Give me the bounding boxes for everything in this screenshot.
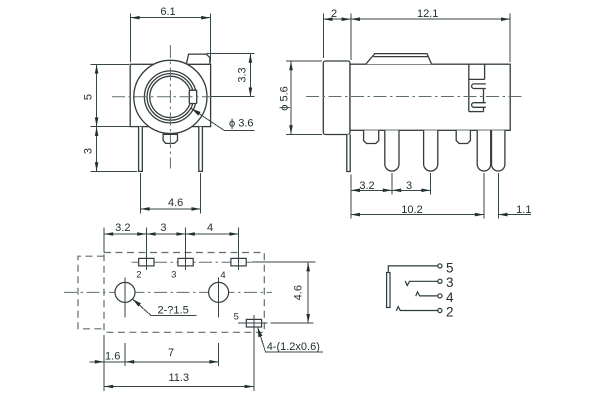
front view top tab	[186, 54, 210, 64]
svg-text:ϕ 3.6: ϕ 3.6	[229, 117, 254, 129]
label 2-1.5 arrow	[133, 299, 142, 307]
bottom view horizontal centerline	[64, 291, 272, 293]
bottom view top extension lines	[103, 228, 105, 253]
svg-text:12.1: 12.1	[417, 8, 438, 20]
dim 10.2 arrows	[351, 213, 360, 217]
front view right leg	[199, 127, 203, 172]
schematic terminal 4	[438, 294, 442, 298]
svg-text:3: 3	[171, 269, 176, 280]
schematic wire pin 2	[396, 307, 438, 311]
dim 7 arrows	[125, 360, 134, 364]
dim 6.1 extension lines	[129, 14, 131, 63]
pad 5 horizontal line	[238, 322, 267, 324]
hole 2 centerline	[218, 278, 220, 318]
side view switch slot lower tail	[483, 107, 485, 111]
svg-text:11.3: 11.3	[169, 372, 190, 384]
dim 4 bottom arrows	[186, 232, 195, 236]
bottom view pad 5	[246, 319, 261, 327]
dim 1.6 arrow	[95, 360, 104, 364]
svg-text:4.6: 4.6	[293, 285, 305, 300]
bottom view pad 3	[178, 258, 193, 266]
svg-text:1.1: 1.1	[516, 204, 531, 216]
svg-text:3: 3	[406, 180, 412, 192]
front view bottom bump	[163, 134, 177, 143]
bottom view body dashed outline	[104, 253, 264, 333]
svg-text:5: 5	[234, 311, 239, 322]
dim phi5.6 line	[290, 61, 292, 134]
dim phi5.6 arrows	[289, 61, 293, 70]
dim 4.6 arrows	[141, 207, 150, 211]
bottom view hole 2	[209, 282, 229, 302]
side view barrel	[323, 61, 350, 135]
side view switch slot lower	[472, 103, 486, 108]
svg-text:6.1: 6.1	[160, 6, 175, 18]
schematic terminal 3	[438, 279, 442, 283]
dim 1.6/7 line	[90, 361, 219, 363]
dim 10.2 line	[351, 214, 484, 216]
svg-text:5: 5	[446, 260, 454, 275]
dim 3 bottom arrows	[147, 232, 156, 236]
bottom dims extension lines	[103, 335, 105, 391]
dim 3 side arrows	[392, 189, 401, 193]
svg-text:3: 3	[83, 148, 95, 154]
centerlines	[64, 45, 524, 292]
arrowheads	[95, 16, 510, 388]
svg-text:5: 5	[83, 94, 95, 100]
phi3.6 leader	[191, 108, 254, 130]
dim 2/12.1 line	[323, 18, 510, 20]
front view contact window rect	[189, 90, 196, 103]
side view pin 2	[385, 130, 399, 171]
dim 4.6 bottom view extension	[252, 261, 316, 263]
dim 1.1 line	[498, 214, 531, 216]
dimension lines group	[90, 14, 532, 392]
side view switch slot upper	[472, 84, 486, 89]
svg-text:2: 2	[136, 269, 141, 280]
dim 5 arrows	[95, 65, 99, 74]
side view stub post 1	[364, 130, 379, 143]
front view hole circle r23.3	[147, 74, 194, 121]
svg-text:4-(1.2x0.6): 4-(1.2x0.6)	[267, 341, 320, 353]
side view stub post 4	[456, 130, 470, 143]
dim 2/12.1 extension lines	[322, 14, 324, 59]
dim 4.6 extension lines	[139, 173, 141, 214]
svg-text:4: 4	[446, 290, 454, 305]
dim 6.1 arrows	[131, 16, 140, 20]
dim 11.3 arrows	[104, 385, 113, 389]
dim 11.3 line	[104, 386, 254, 388]
schematic symbol	[387, 264, 442, 313]
dim 5/3 extension lines	[91, 63, 130, 65]
front view left leg	[139, 127, 143, 172]
svg-text:2: 2	[331, 8, 337, 20]
side view pin 3	[424, 130, 438, 171]
front view outer circle	[134, 60, 207, 133]
svg-text:4: 4	[207, 222, 213, 234]
schematic wire pin 4	[416, 292, 438, 296]
dim 6.1 line	[130, 17, 210, 19]
dim 5/3 line	[96, 64, 98, 171]
schematic sleeve bar	[387, 273, 390, 308]
svg-text:4.6: 4.6	[168, 197, 183, 209]
side view pin 4	[477, 130, 491, 171]
svg-text:3.2: 3.2	[359, 180, 374, 192]
dim 3 arrows	[95, 127, 99, 136]
svg-text:7: 7	[168, 347, 174, 359]
front view inner ring r26	[144, 71, 196, 123]
label 4-1.2x0.6 arrow	[258, 328, 263, 337]
front view vertical centerline	[169, 45, 171, 169]
side view hump inner edge	[373, 56, 428, 58]
schematic terminal 5	[438, 264, 442, 268]
side view switch cutout	[469, 64, 485, 111]
label 2-1.5 leader	[133, 299, 197, 316]
bottom view barrel dashed outline	[78, 256, 104, 329]
schematic wire pin 5	[388, 266, 438, 273]
front view body	[130, 64, 210, 126]
front view tip contact arc	[150, 76, 191, 117]
dim 3.2/3 line	[351, 189, 431, 191]
svg-text:10.2: 10.2	[401, 204, 422, 216]
pad 2 tick	[145, 254, 147, 270]
dim 2 arrows	[324, 17, 333, 21]
dim phi5.6 extension lines	[286, 60, 322, 62]
dim 4.6 bottom arrows	[306, 262, 310, 271]
bottom view hole 1	[115, 282, 135, 302]
label 4-1.2x0.6 leader	[258, 328, 323, 352]
pad 5 tick	[253, 315, 255, 334]
side bottom extension lines	[350, 175, 352, 219]
schematic terminal 2	[438, 308, 442, 312]
svg-text:3: 3	[446, 275, 454, 290]
dim 3.2 bottom arrows	[104, 232, 113, 236]
svg-text:2-?1.5: 2-?1.5	[158, 305, 189, 317]
pad 3 tick	[185, 254, 187, 270]
dim 4.6 line	[140, 208, 200, 210]
side view front leg	[347, 135, 350, 172]
phi3.6 arrow	[192, 109, 201, 116]
dim 3.3 line	[249, 54, 251, 97]
pad 4 tick	[238, 254, 240, 270]
svg-text:ϕ 5.6: ϕ 5.6	[279, 86, 291, 111]
side view top hump	[366, 54, 432, 65]
bottom view pad 4	[231, 258, 246, 266]
front view horizontal centerline	[112, 96, 211, 98]
dim 3.3 extension line	[207, 53, 255, 55]
side view body	[350, 64, 510, 130]
bottom view pad row centerline	[132, 261, 252, 263]
svg-text:3.2: 3.2	[115, 222, 130, 234]
svg-text:1.6: 1.6	[105, 350, 120, 362]
dim 12.1 arrows	[351, 17, 360, 21]
bottom view pad 2	[139, 258, 154, 266]
schematic wire pin 3	[405, 281, 438, 286]
dim 4.6 bottom view line	[307, 262, 309, 323]
svg-text:3: 3	[160, 222, 166, 234]
dim 3.3 arrows	[249, 54, 253, 63]
dim 1.1 arrow	[499, 213, 508, 217]
dim 3.2 arrows	[351, 189, 360, 193]
bottom view dashed outlines	[78, 253, 264, 333]
svg-text:3.3: 3.3	[236, 67, 248, 82]
side view pin 5	[492, 130, 505, 171]
hole 1 centerline	[124, 278, 126, 318]
svg-text:4: 4	[220, 270, 225, 281]
side view switch slot divider	[483, 89, 485, 103]
bottom view top dim line	[104, 233, 239, 235]
side view centerline	[306, 96, 524, 98]
svg-text:2: 2	[446, 305, 454, 320]
